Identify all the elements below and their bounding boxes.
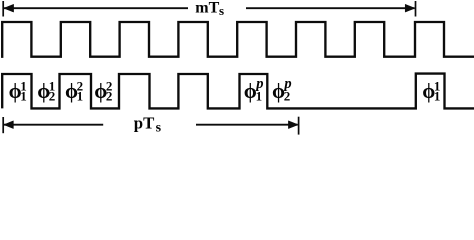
arrow line left segment — [4, 124, 104, 126]
right arrowhead — [288, 121, 298, 129]
right tick — [298, 117, 300, 135]
svg-text:2: 2 — [106, 89, 113, 104]
svg-text:1: 1 — [20, 89, 27, 104]
clock waveform — [2, 22, 474, 58]
svg-text:1: 1 — [77, 89, 84, 104]
phase waveform — [2, 74, 474, 109]
pTs dimension arrow — [3, 117, 298, 135]
left tick — [2, 117, 4, 133]
mTs dimension arrow — [3, 1, 415, 17]
phase label phi_1^p — [244, 76, 264, 104]
arrow line right segment — [196, 124, 298, 126]
left tick — [2, 1, 4, 17]
phase label phi_2^2 (slot 4) — [94, 79, 112, 104]
left arrowhead — [4, 121, 14, 129]
svg-text:s: s — [156, 121, 162, 136]
phase label phi_2^1 (slot 2) — [37, 79, 55, 104]
arrow line right segment — [246, 7, 415, 9]
phase label phi_1^2 (slot 3) — [65, 79, 83, 104]
svg-text:1: 1 — [256, 89, 263, 104]
timing diagram figure — [0, 0, 474, 136]
svg-text:1: 1 — [434, 89, 441, 104]
right arrowhead — [405, 4, 415, 12]
phase label phi_2^p — [272, 76, 292, 104]
left arrowhead — [4, 4, 14, 12]
right tick — [415, 1, 417, 17]
label pTs — [134, 113, 162, 135]
svg-text:s: s — [219, 3, 224, 18]
svg-text:mT: mT — [195, 0, 219, 16]
svg-text:2: 2 — [49, 89, 56, 104]
label mTs — [195, 0, 224, 18]
svg-text:pT: pT — [134, 113, 155, 132]
phase label phi_1^1 (slot 1) — [9, 79, 27, 104]
phase label phi_1^1 (last pulse) — [422, 79, 440, 104]
arrow line left segment — [4, 7, 188, 9]
svg-text:2: 2 — [284, 89, 291, 104]
